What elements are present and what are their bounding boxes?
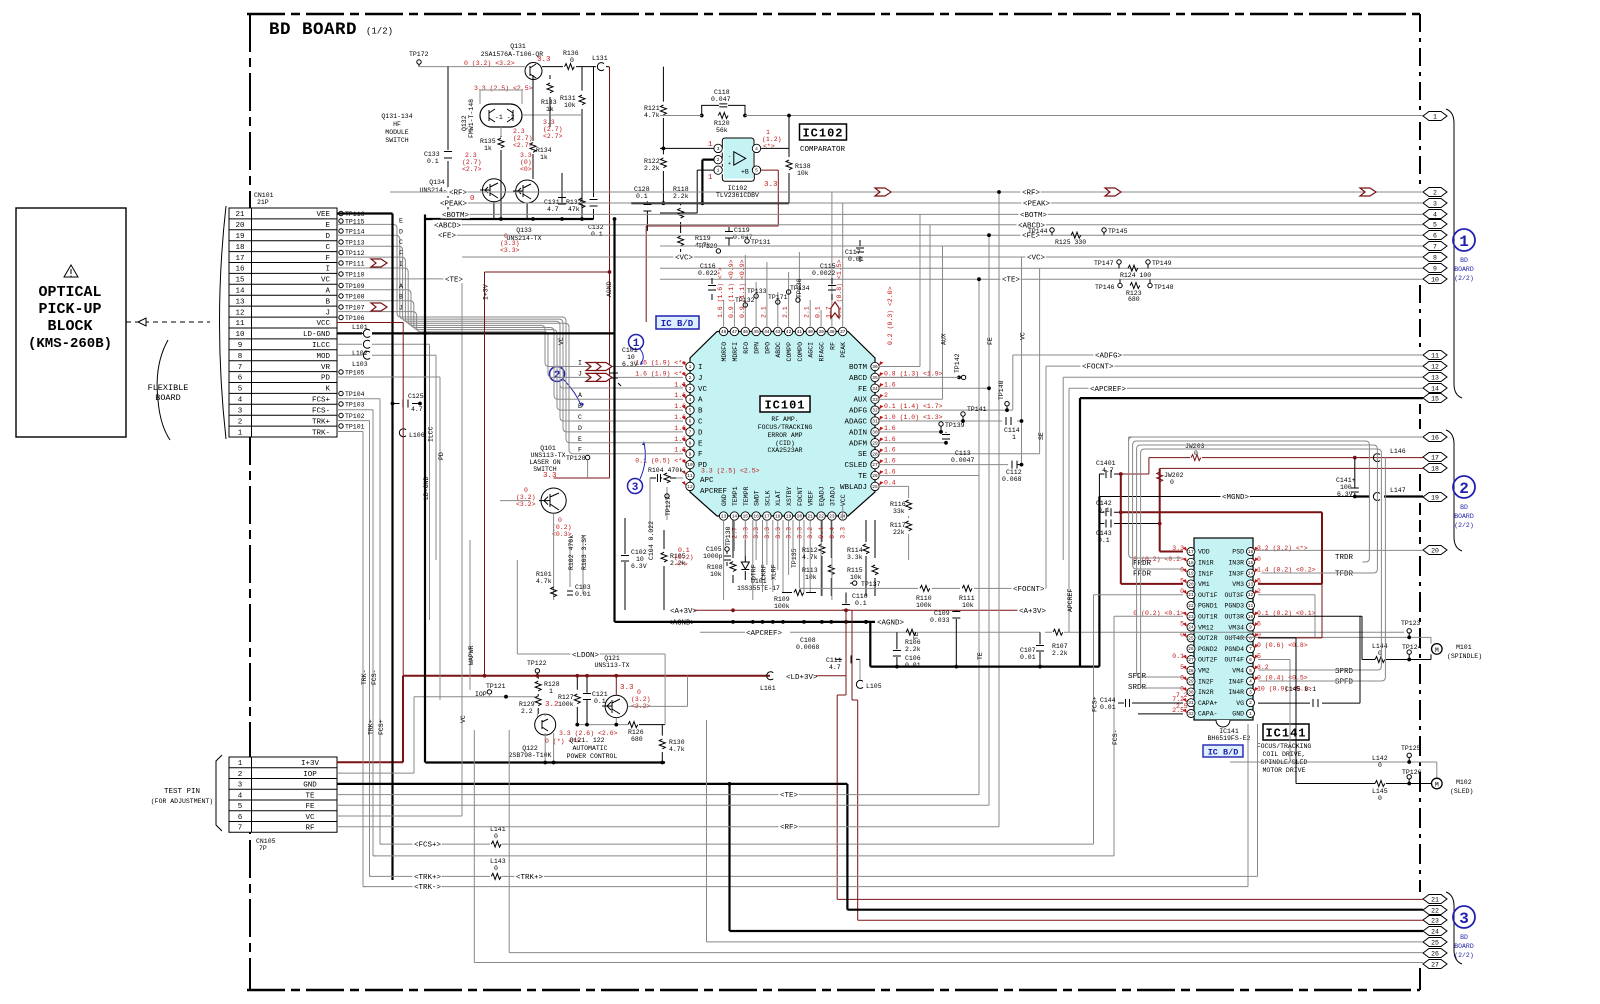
capacitor C133	[447, 67, 449, 219]
svg-text:C: C	[578, 414, 582, 421]
svg-text:WBLADJ: WBLADJ	[840, 484, 867, 492]
svg-text:TP121: TP121	[486, 683, 506, 690]
wires op-amp	[761, 147, 789, 149]
svg-text:R136: R136	[563, 50, 579, 57]
svg-text:27: 27	[872, 462, 878, 468]
wire J	[337, 312, 683, 378]
svg-text:32: 32	[872, 408, 878, 414]
inductor L103	[337, 351, 436, 368]
svg-text:<TRK->: <TRK->	[414, 884, 442, 892]
svg-text:2.1: 2.1	[782, 306, 789, 318]
bracket group 3	[1446, 892, 1462, 964]
comparator IC102 cluster	[631, 67, 1423, 322]
svg-text:41: 41	[797, 329, 803, 335]
svg-text:6: 6	[238, 814, 243, 822]
nets TRK- TRK+ FCS- FCS+	[337, 399, 385, 887]
svg-text:VM4: VM4	[1232, 668, 1244, 675]
svg-text:21: 21	[235, 211, 245, 219]
svg-text:<PEAK>: <PEAK>	[440, 201, 468, 209]
svg-text:3: 3	[1433, 201, 1437, 208]
svg-text:4.7k: 4.7k	[669, 746, 685, 753]
svg-text:BOARD: BOARD	[1454, 266, 1474, 273]
svg-text:TP137: TP137	[861, 581, 881, 588]
capacitor C107 + resistor R107	[1039, 632, 1041, 666]
svg-text:POWER CONTROL: POWER CONTROL	[567, 753, 618, 760]
net AGND	[667, 617, 905, 628]
svg-text:0.1: 0.1	[678, 547, 690, 554]
net BOTM to pin4	[441, 209, 1424, 366]
svg-text:IN3F: IN3F	[1228, 570, 1244, 577]
svg-text:UNS113-TX: UNS113-TX	[530, 452, 565, 459]
svg-text:<FCS+>: <FCS+>	[414, 842, 442, 850]
capacitor C117	[845, 240, 864, 263]
svg-text:BD BOARD: BD BOARD	[269, 20, 357, 40]
svg-text:2.1: 2.1	[804, 306, 811, 318]
svg-text:0 (0.6) <0.8>: 0 (0.6) <0.8>	[1257, 642, 1308, 649]
svg-text:<BOTM>: <BOTM>	[442, 212, 470, 220]
optical pick-up block	[16, 208, 126, 437]
capacitor C141	[1336, 458, 1359, 498]
svg-text:0.9 (1.1) <0.9>: 0.9 (1.1) <0.9>	[728, 259, 735, 318]
svg-text:A: A	[325, 288, 330, 296]
svg-text:26: 26	[872, 473, 878, 479]
svg-text:1.6: 1.6	[884, 436, 896, 443]
svg-text:<VC>: <VC>	[675, 255, 694, 263]
resistor R127	[576, 676, 578, 724]
svg-text:C110: C110	[852, 593, 868, 600]
svg-text:3.3: 3.3	[543, 472, 557, 480]
svg-text:0.01: 0.01	[1100, 704, 1116, 711]
wire B	[337, 301, 683, 410]
rounded loop wires	[1129, 437, 1386, 688]
svg-text:SCLK: SCLK	[764, 490, 771, 506]
svg-text:C114: C114	[1004, 427, 1020, 434]
svg-text:R116: R116	[890, 501, 906, 508]
svg-text:48: 48	[721, 329, 727, 335]
svg-text:680: 680	[1128, 296, 1140, 303]
svg-text:TP149: TP149	[1152, 260, 1172, 267]
svg-text:1.6: 1.6	[884, 381, 896, 388]
svg-text:HF: HF	[393, 121, 401, 128]
svg-text:7: 7	[1433, 244, 1437, 251]
svg-text:C101: C101	[622, 347, 638, 354]
svg-text:OPTICAL: OPTICAL	[38, 284, 101, 301]
svg-text:3: 3	[689, 386, 692, 392]
wire D	[337, 235, 683, 432]
resistor R118	[680, 203, 682, 231]
svg-text:TP141: TP141	[967, 406, 987, 413]
svg-text:6.3V: 6.3V	[1337, 491, 1353, 498]
svg-text:C112: C112	[1006, 469, 1022, 476]
resistor R109	[782, 592, 816, 594]
svg-text:TLV2361CDBV: TLV2361CDBV	[716, 192, 759, 199]
svg-text:(CID): (CID)	[775, 440, 795, 447]
svg-text:<3.3>: <3.3>	[500, 247, 520, 254]
svg-text:24: 24	[1431, 929, 1439, 936]
maroon VM feeders	[1119, 474, 1322, 638]
svg-text:0: 0	[494, 865, 498, 872]
svg-text:TE: TE	[913, 632, 920, 640]
svg-text:1: 1	[708, 174, 713, 182]
svg-text:R127: R127	[558, 694, 574, 701]
svg-text:(2.7): (2.7)	[543, 126, 563, 133]
svg-text:6.3V: 6.3V	[631, 563, 647, 570]
svg-text:10: 10	[627, 354, 635, 361]
svg-text:32: 32	[1188, 711, 1194, 717]
svg-text:2.2k: 2.2k	[673, 193, 689, 200]
svg-text:E: E	[399, 217, 403, 224]
svg-text:R126: R126	[628, 729, 644, 736]
capacitor C131	[561, 173, 563, 203]
svg-text:DPN: DPN	[754, 342, 761, 354]
svg-text:<LD+3V>: <LD+3V>	[786, 674, 818, 682]
net VCC maroon	[337, 323, 403, 763]
svg-text:6: 6	[689, 419, 692, 425]
vertical net APCREF riser	[1068, 388, 1070, 632]
svg-text:TP114: TP114	[345, 229, 365, 236]
svg-text:13: 13	[721, 514, 727, 520]
svg-text:23: 23	[1431, 918, 1439, 925]
svg-text:34: 34	[872, 386, 878, 392]
wire C	[337, 246, 683, 421]
motor M102 sled	[1230, 745, 1473, 802]
svg-text:TP146: TP146	[1095, 284, 1115, 291]
svg-text:0.1: 0.1	[636, 193, 648, 200]
svg-text:TEMP1: TEMP1	[732, 486, 739, 506]
svg-text:BOTM: BOTM	[849, 364, 868, 372]
svg-text:L103: L103	[352, 361, 368, 368]
svg-text:TEST PIN: TEST PIN	[164, 788, 200, 796]
svg-text:E: E	[698, 440, 703, 448]
svg-text:0.1 (1.4) <1.7>: 0.1 (1.4) <1.7>	[884, 403, 943, 410]
svg-text:SWITCH: SWITCH	[385, 137, 409, 144]
svg-text:3.3: 3.3	[543, 119, 555, 126]
svg-text:2.2k: 2.2k	[644, 165, 660, 172]
net pin20 PSD	[1255, 549, 1424, 551]
svg-text:TP133: TP133	[747, 288, 767, 295]
svg-text:R108: R108	[707, 564, 723, 571]
svg-text:1.6 (1.6) <*>: 1.6 (1.6) <*>	[717, 267, 724, 318]
svg-text:C108: C108	[800, 637, 816, 644]
svg-text:TRK+: TRK+	[368, 719, 375, 735]
svg-text:R111: R111	[959, 595, 975, 602]
net WAPWR	[468, 540, 475, 690]
svg-text:BOARD: BOARD	[1454, 513, 1474, 520]
capacitor C115	[812, 263, 836, 300]
svg-text:0.1 (0.5) <*>: 0.1 (0.5) <*>	[635, 458, 686, 465]
svg-text:CAPA-: CAPA-	[1198, 711, 1218, 718]
svg-text:1: 1	[1012, 434, 1016, 441]
svg-text:TP131: TP131	[751, 239, 771, 246]
svg-text:TP135: TP135	[791, 548, 798, 568]
svg-text:12: 12	[687, 484, 693, 490]
net FCS+ bottom	[380, 595, 1183, 850]
svg-text:IN1R: IN1R	[1198, 560, 1214, 567]
connector CN101	[220, 192, 338, 439]
svg-text:F: F	[325, 255, 330, 263]
svg-text:1: 1	[1249, 711, 1252, 717]
svg-text:46: 46	[743, 329, 749, 335]
svg-text:56k: 56k	[716, 127, 728, 134]
test points TP101-TP116	[339, 211, 365, 431]
svg-text:C: C	[698, 419, 703, 427]
svg-text:9: 9	[238, 342, 243, 350]
svg-text:TP102: TP102	[345, 413, 365, 420]
svg-text:0.1: 0.1	[815, 306, 822, 318]
svg-text:1.6: 1.6	[884, 425, 896, 432]
svg-text:0.0068: 0.0068	[796, 644, 820, 651]
jumper JW202 maroon + net pin18	[1157, 468, 1423, 551]
svg-text:<APCREF>: <APCREF>	[746, 630, 783, 638]
svg-text:0: 0	[1378, 795, 1382, 802]
svg-text:L106: L106	[409, 432, 425, 439]
svg-text:<APCREF>: <APCREF>	[1090, 386, 1127, 394]
svg-text:33k: 33k	[893, 508, 905, 515]
svg-text:PD: PD	[321, 375, 331, 383]
svg-text:VC: VC	[1020, 332, 1027, 340]
svg-text:10: 10	[636, 556, 644, 563]
capacitors C144 C145	[1100, 616, 1360, 714]
svg-text:RFAGC: RFAGC	[819, 342, 826, 362]
svg-text:3.3: 3.3	[742, 527, 749, 539]
svg-text:12: 12	[235, 309, 244, 317]
svg-text:PGND3: PGND3	[1224, 603, 1244, 610]
rotated net labels DTRF CKRF XLRF	[753, 520, 773, 600]
svg-text:TP113: TP113	[345, 240, 365, 247]
svg-text:C102: C102	[631, 549, 647, 556]
svg-text:L147: L147	[1390, 487, 1406, 494]
svg-text:B: B	[325, 298, 330, 306]
svg-text:4.7: 4.7	[547, 206, 559, 213]
resistor R105	[663, 530, 665, 610]
svg-text:IN2F: IN2F	[1198, 678, 1214, 685]
svg-text:0 (3.2) <3.2>: 0 (3.2) <3.2>	[464, 60, 515, 67]
svg-text:29: 29	[1188, 679, 1194, 685]
svg-text:<BOTM>: <BOTM>	[1020, 212, 1048, 220]
svg-text:(3.3): (3.3)	[500, 240, 520, 247]
svg-text:AUX: AUX	[853, 397, 867, 405]
svg-text:VC: VC	[698, 386, 708, 394]
svg-text:17: 17	[235, 255, 244, 263]
wire A	[337, 290, 683, 399]
svg-text:R131: R131	[560, 95, 576, 102]
svg-text:R117: R117	[890, 522, 906, 529]
svg-text:E: E	[578, 436, 582, 443]
svg-text:PSD: PSD	[1232, 549, 1244, 556]
transistor Q133	[516, 180, 539, 203]
net APCREF to pin14	[1069, 383, 1423, 394]
svg-text:3: 3	[1459, 910, 1469, 928]
svg-text:PGND4: PGND4	[1224, 646, 1244, 653]
svg-text:I: I	[578, 360, 582, 367]
svg-text:GND: GND	[721, 494, 728, 506]
svg-text:VC: VC	[305, 814, 315, 822]
svg-text:TE: TE	[305, 792, 315, 800]
svg-text:TP104: TP104	[345, 391, 365, 398]
svg-text:I: I	[325, 266, 330, 274]
svg-text:AUTOMATIC: AUTOMATIC	[572, 745, 607, 752]
ground rail (thick)	[424, 218, 594, 220]
svg-text:3.2 (3.2) <*>: 3.2 (3.2) <*>	[1257, 545, 1308, 552]
svg-text:1000p: 1000p	[703, 553, 723, 560]
svg-text:(3.2): (3.2)	[631, 696, 651, 703]
svg-text:<RF>: <RF>	[449, 190, 468, 198]
IC101 bottom pin drops	[724, 505, 847, 600]
svg-text:C118: C118	[714, 89, 730, 96]
svg-text:<LDON>: <LDON>	[572, 652, 600, 660]
svg-text:20: 20	[1188, 581, 1194, 587]
svg-text:R133: R133	[541, 99, 557, 106]
svg-text:R130: R130	[669, 739, 685, 746]
svg-text:11: 11	[687, 473, 693, 479]
svg-text:10: 10	[1431, 277, 1439, 284]
svg-text:XLRF: XLRF	[771, 564, 778, 580]
svg-text:47: 47	[732, 329, 738, 335]
svg-text:Q134: Q134	[429, 179, 445, 186]
svg-text:+B: +B	[741, 169, 749, 176]
svg-text:B: B	[399, 294, 403, 301]
svg-text:C145 0.1: C145 0.1	[1285, 686, 1316, 693]
net TRK- bottom	[363, 724, 1248, 892]
svg-text:LD-GND: LD-GND	[303, 331, 331, 339]
svg-text:FE: FE	[858, 386, 868, 394]
svg-text:23: 23	[1188, 614, 1194, 620]
svg-text:OUT3R: OUT3R	[1224, 614, 1244, 621]
TP142 TP141 TP139	[879, 353, 987, 433]
svg-text:C125: C125	[408, 393, 424, 400]
svg-text:TE: TE	[977, 652, 984, 660]
svg-text:TP106: TP106	[345, 315, 365, 322]
svg-text:R135: R135	[480, 138, 496, 145]
svg-text:10k: 10k	[805, 574, 817, 581]
transistor Q131	[525, 63, 542, 80]
net MOD vertical	[435, 355, 437, 560]
svg-text:TP109: TP109	[345, 283, 365, 290]
svg-text:<RF>: <RF>	[1022, 190, 1041, 198]
svg-text:<*>: <*>	[676, 561, 688, 568]
svg-text:4.7k: 4.7k	[644, 112, 660, 119]
TP136	[796, 298, 800, 302]
svg-text:3.3: 3.3	[764, 527, 771, 539]
svg-text:0.8 (1.3) <1.9>: 0.8 (1.3) <1.9>	[884, 370, 943, 377]
resistor R104 capacitor C104	[648, 467, 694, 568]
svg-text:R107: R107	[1052, 643, 1068, 650]
svg-text:17: 17	[1188, 549, 1194, 555]
IC141 motor driver block	[1133, 538, 1315, 774]
capacitor C112	[1002, 461, 1023, 483]
svg-text:26: 26	[1188, 646, 1194, 652]
svg-text:14: 14	[732, 514, 738, 520]
svg-text:1k: 1k	[484, 145, 492, 152]
HF module switch cluster Q131-Q134	[381, 43, 609, 478]
net LDON	[517, 560, 665, 725]
chevrons at IC101 I J	[586, 363, 602, 371]
svg-text:(SPINDLE): (SPINDLE)	[1447, 653, 1482, 660]
svg-text:3.3k: 3.3k	[847, 554, 863, 561]
svg-text:27: 27	[1431, 962, 1439, 969]
svg-text:2.3: 2.3	[465, 152, 477, 159]
svg-text:C107: C107	[1020, 647, 1036, 654]
svg-text:BLOCK: BLOCK	[47, 318, 92, 335]
circled 2 annotation	[550, 367, 585, 408]
svg-text:22: 22	[1188, 603, 1194, 609]
svg-text:A: A	[578, 392, 582, 399]
svg-text:2.2k: 2.2k	[905, 646, 921, 653]
svg-text:ADFM: ADFM	[849, 440, 868, 448]
inductor L106	[399, 429, 424, 439]
svg-text:10k: 10k	[850, 574, 862, 581]
svg-text:13: 13	[1431, 375, 1439, 382]
svg-text:1: 1	[549, 688, 553, 695]
svg-text:FCS+: FCS+	[312, 397, 331, 405]
comparator output wire to pin 1	[660, 115, 1423, 117]
svg-text:TP142: TP142	[954, 353, 961, 373]
svg-text:TE: TE	[858, 473, 868, 481]
svg-text:VCC: VCC	[316, 320, 330, 328]
svg-text:7P: 7P	[259, 845, 267, 852]
capacitor C109	[955, 610, 957, 666]
svg-text:VR: VR	[321, 364, 331, 372]
svg-text:FCS-: FCS-	[371, 669, 378, 685]
net FE to pin6	[437, 228, 1424, 390]
svg-text:8: 8	[1249, 635, 1252, 641]
svg-text:3.3: 3.3	[537, 56, 551, 64]
svg-text:XSTBY: XSTBY	[786, 486, 793, 506]
svg-text:VM1: VM1	[1198, 581, 1210, 588]
resistor R132	[579, 198, 585, 208]
svg-text:FRDR: FRDR	[1133, 560, 1152, 568]
net RF to pin2	[390, 187, 1423, 198]
svg-text:-: -	[728, 154, 731, 160]
net pin9	[660, 260, 1423, 279]
svg-text:C: C	[399, 239, 403, 246]
transistor Q134	[482, 179, 505, 202]
svg-text:25: 25	[1431, 940, 1439, 947]
wire F	[337, 257, 683, 454]
BD board 2/2 connector pins 1-27	[1423, 112, 1447, 969]
svg-text:14: 14	[1248, 571, 1254, 577]
svg-text:PICK-UP: PICK-UP	[38, 301, 101, 318]
below IC101: bias network	[610, 347, 912, 622]
svg-text:RF: RF	[829, 342, 836, 350]
svg-text:(FOR ADJUSTMENT): (FOR ADJUSTMENT)	[151, 798, 213, 805]
svg-text:D: D	[325, 233, 330, 241]
svg-text:4.7: 4.7	[1102, 467, 1114, 474]
svg-text:ABDC: ABDC	[775, 342, 782, 358]
svg-text:<ADFG>: <ADFG>	[1095, 353, 1123, 361]
svg-text:0: 0	[524, 487, 528, 494]
svg-text:1: 1	[717, 168, 720, 174]
svg-text:VC: VC	[460, 715, 467, 723]
svg-text:2.7: 2.7	[731, 527, 738, 539]
svg-text:4: 4	[755, 146, 758, 152]
diode D101	[744, 540, 746, 580]
svg-text:IC B/D: IC B/D	[1208, 748, 1239, 758]
svg-text:0.01: 0.01	[575, 591, 591, 598]
resistor R108	[732, 520, 734, 583]
svg-text:0: 0	[1378, 762, 1382, 769]
svg-text:30: 30	[872, 430, 878, 436]
bracket group 1	[1446, 109, 1462, 398]
svg-text:IC141: IC141	[1219, 728, 1239, 735]
svg-text:100: 100	[1340, 484, 1352, 491]
svg-text:OUT2F: OUT2F	[1198, 657, 1218, 664]
transistor Q122	[535, 714, 556, 735]
svg-text:0.1: 0.1	[591, 231, 603, 238]
resistor R133	[549, 75, 551, 127]
inductor L146 on pin17 net	[1360, 448, 1406, 462]
net PEAK to pin3	[439, 198, 1424, 209]
